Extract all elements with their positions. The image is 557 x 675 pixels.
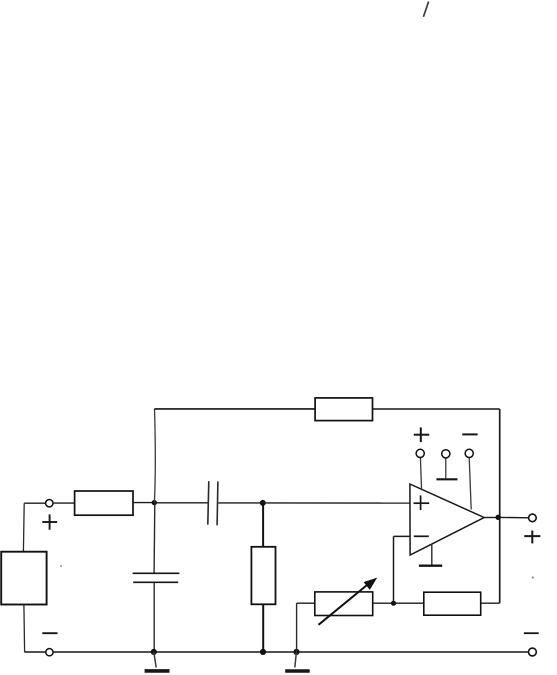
power pin wire V- [469,458,471,510]
wire node B down to R2 [262,503,264,547]
op-amp plus input label [414,495,430,510]
source box E1 [1,552,46,605]
terminal circle input + [46,500,53,507]
wire op-amp output [484,517,497,519]
power pin wire V+ [420,458,421,491]
terminal circle output + [529,514,537,522]
wire R1 to node A [133,502,154,504]
potentiometer arrowhead [364,578,378,590]
terminal circle output - [529,648,537,656]
junction R2 bottom rail [260,649,266,655]
top rail left [154,408,315,410]
power pin ground bar [436,478,457,480]
wire node A up to top rail [153,409,156,503]
potentiometer R3 body [315,592,373,616]
wire junction up to minus input [393,536,395,603]
node A [152,500,157,505]
power pin circle V- [465,449,473,457]
speck right [532,576,534,578]
wire input top-left [24,502,45,504]
wire bottom rail up to potentiometer [296,603,298,652]
resistor R5 feedback [315,398,372,421]
bottom rail [24,651,528,653]
resistor R1 [75,491,133,515]
stray pen mark [423,2,428,17]
ground bar center [285,669,310,673]
terminal circle input - [46,649,53,656]
wire pot to junction [373,602,394,604]
wire left vertical to source [22,503,25,552]
wire to pot left [297,602,315,604]
wire node A to C2 [154,502,208,504]
wire R4 to feedback vertical [481,602,500,604]
ground stub center [295,652,297,668]
junction C1 bottom rail [151,649,157,655]
label - output [524,632,539,634]
wire minus input horizontal [394,535,411,537]
wire C2 to node B [218,502,262,504]
wire C1 to bottom rail [153,582,155,652]
wire source bottom [23,605,26,652]
resistor R4 [424,592,481,615]
label - input [42,632,57,634]
output node junction [496,515,501,520]
resistor R2 [251,547,275,605]
wire node A down to C1 [153,503,156,573]
power pin wire mid [445,458,447,478]
ground bar left [145,669,170,673]
wire R2 to bottom rail [262,604,264,652]
op-amp ground bar [419,565,442,567]
power pin circle mid [442,450,450,458]
capacitor C2 [208,481,218,525]
node B [260,500,266,506]
feedback vertical wire [499,409,501,603]
power pin circle V+ [416,449,424,457]
label + supply [414,427,429,442]
capacitor C1 [133,573,180,582]
wire output to terminal [500,516,528,518]
wire node B to op-amp plus input [263,502,410,504]
potentiometer arrow [319,581,372,624]
speck near source [60,565,62,567]
junction pot R4 [391,601,396,606]
op-amp minus input label [414,535,429,537]
label + output [524,531,540,544]
op-amp ground stub [431,544,433,566]
top rail right [373,408,500,410]
label - supply [462,433,477,435]
ground stub left [154,652,156,668]
wire junction to R4 [394,602,424,604]
junction pot branch bottom rail [293,649,299,655]
wire terminal to R1 [53,502,75,504]
label + input [42,514,57,529]
op-amp U1 triangle [410,484,484,555]
